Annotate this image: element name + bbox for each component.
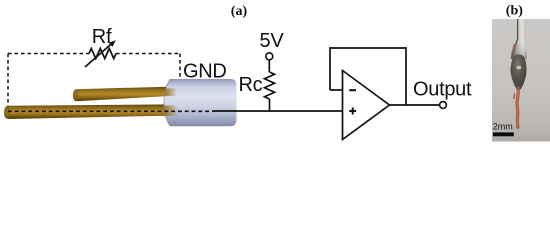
op-amp plus symbol <box>349 108 356 115</box>
photo needle shaft <box>511 19 527 59</box>
op-amp U1 triangle <box>343 71 390 140</box>
resistor Rf wiper arrow <box>85 40 116 67</box>
dashed box top edge left segment <box>8 53 89 55</box>
svg-text:Rc: Rc <box>239 74 263 96</box>
svg-text:GND: GND <box>183 61 227 83</box>
photo background <box>492 19 550 142</box>
photo copper streak on needle <box>512 44 515 58</box>
photo copper wire tip <box>514 88 519 127</box>
wire: feedback loop <box>330 48 406 105</box>
dashed electrode axis wire <box>8 110 213 112</box>
pipette tube body <box>164 79 237 126</box>
svg-text:2mm: 2mm <box>493 122 513 132</box>
wire: Rc to signal node <box>269 99 271 112</box>
wire: 5V to Rc <box>268 60 270 72</box>
svg-text:Rf: Rf <box>92 26 112 48</box>
resistor Rf (variable, zigzag) <box>89 49 116 59</box>
photo bottom shading <box>492 137 550 141</box>
dashed box right edge (GND lead) <box>179 54 181 80</box>
svg-text:(a): (a) <box>231 4 248 19</box>
photo needle cone shading <box>511 42 527 59</box>
photo scale bar <box>493 132 514 136</box>
photo bulb specular highlight <box>517 66 522 69</box>
svg-text:5V: 5V <box>260 30 285 52</box>
output terminal <box>440 102 447 109</box>
dashed box left edge <box>7 54 9 107</box>
svg-text:Output: Output <box>413 78 472 100</box>
wire: op-amp output <box>390 104 440 106</box>
resistor Rc <box>265 72 275 99</box>
photo needle left dark edge <box>512 19 518 58</box>
photo electrode bulb <box>510 55 526 91</box>
electrode rod upper (short) <box>73 87 172 102</box>
electrode rod lower (long) <box>4 104 173 119</box>
wire: inverting input stub <box>330 89 343 91</box>
svg-text:(b): (b) <box>506 3 523 18</box>
wire: main signal to op-amp non-inverting input <box>213 110 343 112</box>
op-amp minus symbol <box>349 89 356 91</box>
pipette tube left cap rim <box>164 79 171 126</box>
pipette tube rod ends showing through <box>165 88 179 116</box>
5V supply terminal <box>266 53 273 60</box>
dashed box top edge right segment <box>116 53 180 55</box>
